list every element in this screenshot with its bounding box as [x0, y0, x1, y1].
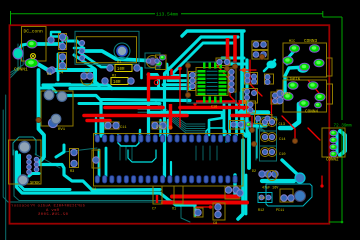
svg-text:LINE2: LINE2 — [281, 92, 291, 96]
svg-text:C2: C2 — [85, 70, 90, 74]
svg-text:DC_conn: DC_conn — [24, 29, 44, 35]
svg-text:10R: 10R — [117, 68, 125, 72]
svg-text:CONN3: CONN3 — [304, 39, 318, 44]
svg-text:X1: X1 — [172, 208, 176, 212]
svg-text:CONN4: CONN4 — [305, 110, 319, 115]
svg-text:C4: C4 — [59, 72, 64, 76]
svg-text:CONN2: CONN2 — [326, 159, 339, 163]
svg-text:MIC: MIC — [289, 40, 295, 44]
svg-text:R10: R10 — [259, 197, 265, 201]
svg-text:C13: C13 — [279, 123, 285, 127]
svg-text:U1: U1 — [92, 188, 96, 192]
svg-text:CONN1: CONN1 — [14, 67, 28, 73]
svg-text:D5: D5 — [274, 118, 278, 122]
svg-text:D1: D1 — [47, 73, 52, 77]
svg-text:R3: R3 — [70, 170, 74, 174]
svg-text:C16: C16 — [211, 106, 217, 110]
svg-text:C3: C3 — [242, 88, 246, 92]
svg-text:02-JUN-2005: 02-JUN-2005 — [37, 213, 68, 217]
svg-text:C11: C11 — [120, 126, 126, 130]
svg-text:Rev A: Rev A — [45, 209, 59, 213]
svg-text:C14: C14 — [279, 138, 285, 142]
svg-text:10R: 10R — [113, 81, 121, 85]
svg-text:113.54mm: 113.54mm — [156, 11, 178, 17]
svg-text:LINEIN: LINEIN — [287, 78, 300, 82]
svg-text:C8: C8 — [213, 222, 217, 226]
svg-text:D2: D2 — [252, 170, 256, 174]
svg-text:dsPIC30F4013 Audio Processor: dsPIC30F4013 Audio Processor — [10, 204, 85, 209]
svg-text:R2: R2 — [112, 75, 116, 79]
svg-text:SPKR: SPKR — [30, 182, 40, 186]
svg-text:PC11: PC11 — [276, 209, 284, 213]
svg-text:C7: C7 — [152, 208, 156, 212]
svg-text:C10: C10 — [279, 153, 285, 157]
svg-text:RV1: RV1 — [58, 128, 66, 132]
svg-text:47uF 16V: 47uF 16V — [262, 187, 279, 191]
svg-text:C15: C15 — [156, 126, 162, 130]
svg-text:R1: R1 — [117, 61, 122, 65]
svg-text:R12: R12 — [258, 209, 264, 213]
